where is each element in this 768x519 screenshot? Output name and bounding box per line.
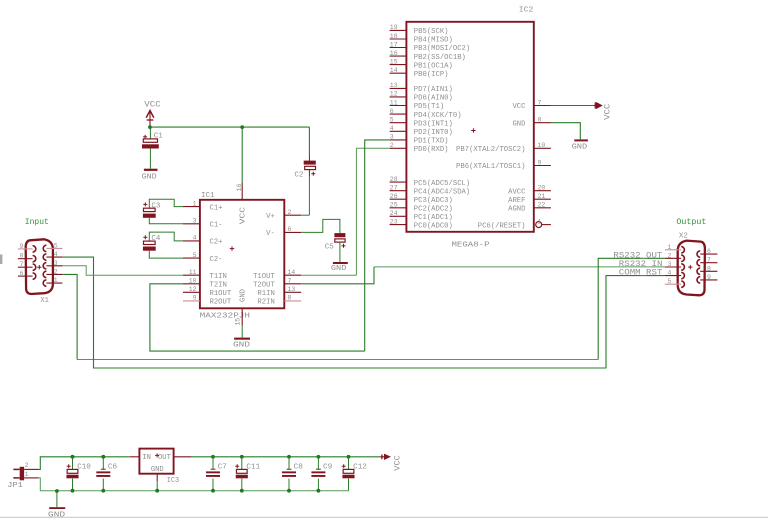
svg-text:VCC: VCC (512, 103, 526, 111)
svg-text:V+: V+ (266, 213, 275, 221)
svg-text:C8: C8 (294, 464, 304, 472)
svg-text:5: 5 (193, 252, 197, 259)
svg-text:C10: C10 (77, 464, 91, 472)
svg-text:PD2(INT0): PD2(INT0) (414, 129, 453, 137)
svg-text:C9: C9 (323, 464, 333, 472)
svg-text:24: 24 (390, 210, 398, 217)
svg-text:13: 13 (288, 286, 296, 293)
svg-text:OUT: OUT (158, 454, 172, 462)
svg-text:10: 10 (189, 278, 197, 285)
svg-text:VCC: VCC (604, 103, 613, 119)
svg-text:3: 3 (54, 260, 58, 267)
svg-text:C1: C1 (154, 133, 163, 141)
svg-text:12: 12 (390, 91, 398, 98)
svg-text:5: 5 (668, 278, 672, 285)
svg-text:4: 4 (668, 270, 672, 277)
svg-text:PB2(SS/OC1B): PB2(SS/OC1B) (414, 54, 466, 62)
svg-text:8: 8 (707, 265, 711, 272)
svg-text:C2+: C2+ (210, 239, 223, 247)
svg-text:C1-: C1- (210, 222, 223, 230)
svg-text:8: 8 (20, 253, 24, 260)
svg-text:19: 19 (390, 24, 398, 31)
svg-text:7: 7 (20, 261, 24, 268)
svg-text:1: 1 (538, 218, 542, 225)
svg-text:16: 16 (390, 50, 398, 57)
svg-text:PD3(INT1): PD3(INT1) (414, 120, 453, 128)
svg-text:IC3: IC3 (167, 477, 180, 485)
svg-text:6: 6 (20, 270, 24, 277)
svg-text:PB3(MOSI/OC2): PB3(MOSI/OC2) (414, 45, 470, 53)
svg-text:7: 7 (538, 99, 542, 106)
svg-text:2: 2 (668, 252, 672, 259)
svg-text:PD7(AIN1): PD7(AIN1) (414, 86, 453, 94)
svg-text:10: 10 (538, 142, 546, 149)
svg-text:PC4(ADC4/SDA): PC4(ADC4/SDA) (414, 188, 470, 196)
svg-text:27: 27 (390, 185, 398, 192)
svg-text:6: 6 (390, 108, 394, 115)
svg-text:5: 5 (54, 242, 58, 249)
svg-text:13: 13 (390, 82, 398, 89)
svg-text:C4: C4 (151, 235, 160, 243)
svg-text:C2-: C2- (210, 256, 223, 264)
svg-text:PB5(SCK): PB5(SCK) (414, 28, 449, 36)
svg-text:PD1(TXD): PD1(TXD) (414, 138, 449, 146)
svg-text:PC6(/RESET): PC6(/RESET) (478, 222, 526, 230)
svg-text:12: 12 (189, 286, 197, 293)
svg-text:2: 2 (288, 209, 292, 216)
svg-text:C6: C6 (108, 464, 118, 472)
svg-text:PB4(MISO): PB4(MISO) (414, 37, 453, 45)
svg-text:6: 6 (288, 226, 292, 233)
svg-text:9: 9 (20, 243, 24, 250)
svg-text:7: 7 (288, 278, 292, 285)
svg-text:4: 4 (193, 235, 197, 242)
svg-text:IC2: IC2 (519, 7, 534, 15)
svg-text:IC1: IC1 (201, 192, 215, 200)
svg-text:PB6(XTAL1/TOSC1): PB6(XTAL1/TOSC1) (456, 163, 525, 171)
svg-text:18: 18 (390, 33, 398, 40)
svg-text:14: 14 (288, 269, 296, 276)
svg-text:16: 16 (236, 184, 243, 192)
svg-text:JP1: JP1 (7, 482, 23, 490)
svg-text:PD4(XCK/T0): PD4(XCK/T0) (414, 112, 462, 120)
svg-text:PD5(T1): PD5(T1) (414, 103, 444, 111)
svg-text:GND: GND (331, 265, 347, 273)
svg-text:T1OUT: T1OUT (253, 273, 275, 281)
svg-text:1: 1 (193, 200, 197, 207)
svg-text:PC2(ADC2): PC2(ADC2) (414, 206, 453, 214)
svg-text:PC5(ADC5/SCL): PC5(ADC5/SCL) (414, 180, 470, 188)
svg-text:PB1(OC1A): PB1(OC1A) (414, 62, 453, 70)
svg-text:20: 20 (538, 185, 546, 192)
svg-text:9: 9 (707, 274, 711, 281)
svg-text:C11: C11 (246, 464, 260, 472)
svg-text:R1OUT: R1OUT (210, 290, 232, 298)
svg-text:GND: GND (240, 289, 248, 302)
svg-text:4: 4 (390, 125, 394, 132)
svg-text:6: 6 (707, 248, 711, 255)
svg-text:1: 1 (25, 471, 29, 478)
svg-text:21: 21 (538, 193, 546, 200)
svg-text:GND: GND (151, 466, 164, 474)
svg-text:3: 3 (390, 134, 394, 141)
svg-text:11: 11 (189, 269, 197, 276)
svg-text:R2IN: R2IN (257, 299, 274, 307)
svg-text:AGND: AGND (508, 206, 525, 214)
svg-text:X1: X1 (40, 297, 49, 305)
svg-text:GND: GND (48, 512, 66, 519)
svg-text:1: 1 (668, 244, 672, 251)
svg-text:GND: GND (512, 120, 525, 128)
svg-text:3: 3 (668, 261, 672, 268)
svg-text:VCC: VCC (393, 455, 402, 471)
svg-text:PB7(XTAL2/TOSC2): PB7(XTAL2/TOSC2) (456, 146, 525, 154)
svg-text:VCC: VCC (144, 101, 161, 110)
svg-text:T2IN: T2IN (210, 282, 227, 290)
svg-text:23: 23 (390, 218, 398, 225)
svg-text:AREF: AREF (508, 197, 525, 205)
svg-text:4: 4 (54, 251, 58, 258)
svg-text:2: 2 (25, 462, 29, 469)
svg-text:5: 5 (390, 117, 394, 124)
svg-text:C5: C5 (325, 243, 334, 251)
svg-text:X2: X2 (679, 233, 688, 241)
svg-text:T1IN: T1IN (210, 273, 227, 281)
svg-text:C7: C7 (218, 464, 227, 472)
svg-text:15: 15 (234, 318, 241, 326)
svg-text:T2OUT: T2OUT (253, 282, 275, 290)
svg-text:PC0(ADC0): PC0(ADC0) (414, 222, 453, 230)
svg-text:PD6(AIN0): PD6(AIN0) (414, 95, 453, 103)
svg-text:C12: C12 (353, 464, 367, 472)
svg-text:9: 9 (193, 295, 197, 302)
svg-text:28: 28 (390, 176, 398, 183)
svg-text:15: 15 (390, 58, 398, 65)
svg-text:7: 7 (707, 257, 711, 264)
svg-text:PB0(ICP): PB0(ICP) (414, 71, 449, 79)
svg-text:25: 25 (390, 202, 398, 209)
svg-text:11: 11 (390, 99, 398, 106)
svg-text:IN: IN (142, 454, 151, 462)
svg-text:2: 2 (54, 268, 58, 275)
svg-text:14: 14 (390, 67, 398, 74)
svg-text:R2OUT: R2OUT (210, 299, 232, 307)
svg-text:VCC: VCC (240, 206, 248, 224)
svg-text:GND: GND (572, 143, 588, 151)
svg-text:1: 1 (54, 277, 58, 284)
svg-text:V-: V- (266, 230, 275, 238)
svg-text:9: 9 (538, 159, 542, 166)
svg-text:8: 8 (538, 117, 542, 124)
svg-text:17: 17 (390, 41, 398, 48)
svg-text:26: 26 (390, 193, 398, 200)
svg-text:AVCC: AVCC (508, 188, 526, 196)
svg-text:C2: C2 (294, 171, 303, 179)
svg-text:PC3(ADC3): PC3(ADC3) (414, 197, 453, 205)
svg-text:3: 3 (193, 218, 197, 225)
svg-text:R1IN: R1IN (257, 290, 274, 298)
svg-text:Output: Output (676, 218, 706, 227)
svg-text:22: 22 (538, 202, 546, 209)
svg-text:GND: GND (233, 341, 251, 349)
svg-text:MEGA8-P: MEGA8-P (452, 241, 491, 249)
svg-text:2: 2 (390, 142, 394, 149)
svg-text:PD0(RXD): PD0(RXD) (414, 146, 449, 154)
svg-text:COMM_RST: COMM_RST (619, 268, 663, 277)
svg-text:8: 8 (288, 295, 292, 302)
svg-text:C1+: C1+ (210, 204, 223, 212)
svg-text:PC1(ADC1): PC1(ADC1) (414, 214, 453, 222)
svg-text:Input: Input (25, 218, 49, 227)
svg-text:C3: C3 (151, 202, 160, 210)
svg-text:GND: GND (142, 173, 157, 181)
